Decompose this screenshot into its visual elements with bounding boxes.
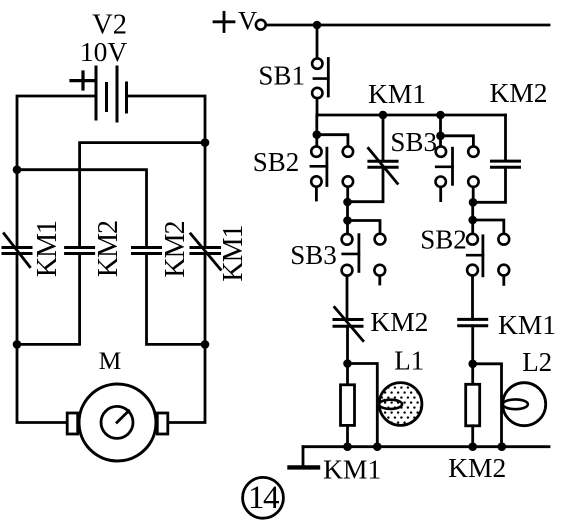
node junction column B xyxy=(343,198,352,207)
svg-text:KM2: KM2 xyxy=(93,221,124,277)
pushbutton SB3 xyxy=(436,146,479,200)
wire SB3 jog xyxy=(441,136,474,147)
battery V2 xyxy=(71,67,127,121)
wire KM2 NC to coil xyxy=(346,326,349,385)
contact KM2 NO xyxy=(473,115,519,202)
svg-text:L1: L1 xyxy=(394,345,424,375)
wire top rail xyxy=(266,24,549,27)
node junction right rail xyxy=(201,138,210,147)
svg-text:KM1: KM1 xyxy=(32,221,63,277)
wire SB2b out xyxy=(471,276,474,320)
node junction L2 bottom xyxy=(498,442,507,451)
wire L2 branch xyxy=(473,364,502,447)
contact KM2 NC lower xyxy=(334,307,363,340)
contact KM2 NO branch2 xyxy=(66,248,94,254)
ground xyxy=(290,447,319,468)
label +V xyxy=(214,12,234,31)
contact KM1 NC xyxy=(348,115,398,202)
wire bus to SB2 xyxy=(315,115,318,146)
motor M xyxy=(67,384,168,461)
wire branch2 top xyxy=(80,143,205,248)
node junction L2 xyxy=(468,360,477,369)
wire column B down xyxy=(346,202,349,234)
contact KM1 NO lower xyxy=(459,319,487,325)
wire SB2 jog xyxy=(317,135,348,147)
svg-text:KM2: KM2 xyxy=(489,77,547,108)
node junction L1 bottom xyxy=(373,442,382,451)
node junction right rail bottom xyxy=(201,340,210,349)
svg-text:10V: 10V xyxy=(80,36,128,67)
lamp L2 xyxy=(503,383,546,426)
svg-text:KM1: KM1 xyxy=(498,309,556,340)
node junction coil KM1 xyxy=(343,442,352,451)
svg-text:KM1: KM1 xyxy=(218,225,249,281)
wire SB2b jog xyxy=(473,220,504,234)
svg-text:SB2: SB2 xyxy=(420,224,467,254)
svg-text:V: V xyxy=(238,6,257,36)
wire branch3 bottom xyxy=(147,254,206,345)
svg-text:M: M xyxy=(99,346,122,375)
svg-text:KM2: KM2 xyxy=(448,452,506,483)
contact KM2 NO branch3 xyxy=(133,248,161,254)
wire SB3b out xyxy=(346,276,349,320)
wire right rail lower xyxy=(167,254,205,423)
node junction SB3 top xyxy=(436,132,445,141)
wire L1 branch xyxy=(348,364,378,447)
wire to SB1 xyxy=(316,25,319,58)
lamp L1 xyxy=(379,383,422,426)
svg-text:KM1: KM1 xyxy=(323,454,381,485)
svg-text:L2: L2 xyxy=(522,347,552,377)
wire battery left to left rail xyxy=(17,96,96,248)
svg-text:SB1: SB1 xyxy=(258,61,305,91)
node junction coil KM2 xyxy=(468,442,477,451)
wire SB2 out xyxy=(346,187,349,202)
svg-text:KM1: KM1 xyxy=(368,78,426,109)
node junction bus SB3 xyxy=(436,111,445,120)
coil KM2 xyxy=(466,384,480,446)
pushbutton SB2 lower xyxy=(467,234,509,285)
wire control bus xyxy=(317,114,506,117)
svg-text:KM2: KM2 xyxy=(160,221,191,277)
node junction left rail xyxy=(13,165,22,174)
wire left rail lower xyxy=(17,254,68,423)
contact KM1 NC branch4 xyxy=(191,234,221,270)
wire SB1 to bus xyxy=(316,98,319,115)
node junction SB2 top xyxy=(313,130,322,139)
svg-text:KM2: KM2 xyxy=(370,306,428,337)
coil KM1 xyxy=(341,385,355,447)
wire battery right to right rail xyxy=(127,96,206,248)
contact KM1 NC branch1 xyxy=(3,234,31,267)
wire branch3 top xyxy=(17,170,147,248)
node junction SB2b top xyxy=(468,216,477,225)
node junction column C xyxy=(469,198,478,207)
node junction top rail xyxy=(313,21,322,30)
wire bottom bus xyxy=(303,445,549,448)
node junction L1 xyxy=(343,359,352,368)
node junction SB3b top xyxy=(343,216,352,225)
wire bus to SB3 xyxy=(439,115,442,146)
figure number 14 xyxy=(243,477,284,518)
wire column C down xyxy=(471,202,474,234)
node junction left rail bottom xyxy=(13,340,22,349)
svg-text:SB2: SB2 xyxy=(253,147,300,177)
svg-text:SB3: SB3 xyxy=(390,127,437,157)
wire KM1 NO to coil xyxy=(471,326,474,385)
wire SB3 out xyxy=(472,187,475,202)
svg-text:14: 14 xyxy=(248,480,279,516)
wire branch2 bottom xyxy=(17,254,80,345)
pushbutton SB3 lower xyxy=(342,234,386,284)
pushbutton SB2 xyxy=(311,146,353,200)
node junction bus KM1 xyxy=(379,111,388,120)
svg-text:SB3: SB3 xyxy=(290,240,337,270)
wire SB3b jog xyxy=(348,221,381,234)
pushbutton SB1 xyxy=(312,58,328,98)
terminal +V xyxy=(256,20,266,30)
